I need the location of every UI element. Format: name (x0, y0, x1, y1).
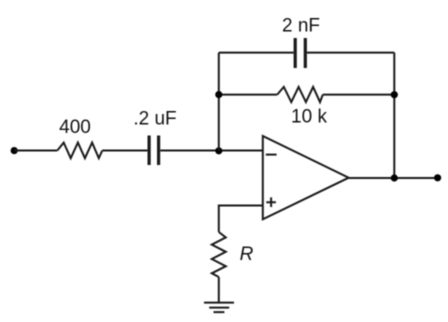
wire: non-inverting input to corner (219, 206, 263, 233)
wire: capacitor to op-amp inverting input (160, 150, 262, 152)
resistor R=10k (277, 87, 323, 102)
svg-text:2 nF: 2 nF (282, 16, 320, 37)
svg-text:R: R (240, 244, 254, 265)
wire: resistor R to ground (218, 277, 220, 303)
output terminal dot (434, 174, 441, 181)
wire: top branch left (to 2nF) (219, 52, 294, 54)
junction dot: output node (391, 174, 398, 181)
capacitor C=.2uF left plate (148, 136, 151, 166)
wire: top branch right (2nF to right riser) (307, 52, 394, 54)
op-amp U1 triangle (263, 136, 349, 219)
wire: input to resistor 400 (14, 150, 57, 152)
wire: op-amp output (349, 177, 438, 179)
op-amp plus symbol (266, 197, 276, 207)
junction dot: left 10k tap (215, 91, 222, 98)
svg-text:.2 uF: .2 uF (133, 109, 176, 130)
capacitor C=.2uF right plate (157, 136, 160, 166)
resistor R=400 (57, 143, 102, 159)
wire: resistor 400 to capacitor .2uF (102, 150, 147, 152)
svg-text:10 k: 10 k (291, 107, 327, 128)
wire: 10k branch left (219, 94, 277, 96)
capacitor C=2nF left plate (294, 38, 297, 68)
wire: left vertical feedback riser (218, 53, 220, 151)
node A junction dot (inverting input node) (215, 147, 222, 154)
resistor R (vertical) (212, 232, 226, 277)
ground symbol (204, 303, 234, 313)
capacitor C=2nF right plate (304, 38, 307, 68)
input terminal dot (11, 147, 18, 154)
svg-text:400: 400 (59, 117, 91, 138)
op-amp minus symbol (266, 154, 277, 156)
junction dot: right 10k tap (391, 91, 398, 98)
wire: 10k branch right (323, 94, 395, 96)
wire: right vertical feedback drop (393, 53, 395, 178)
